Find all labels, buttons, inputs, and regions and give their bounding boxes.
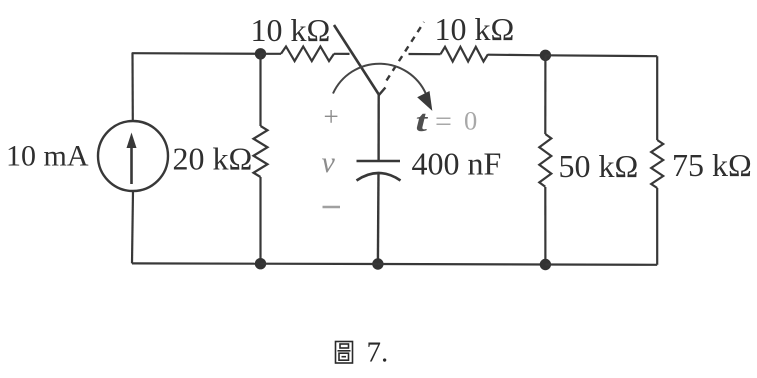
switch SW1 blade (closed toward left)	[334, 25, 379, 95]
wire top-left horizontal	[133, 52, 261, 55]
node B top (junction dot)	[540, 50, 551, 61]
capacitor C1 top plate	[357, 160, 401, 163]
minus sign	[323, 206, 341, 209]
current source arrowhead	[127, 133, 137, 149]
wire left rail upper	[131, 53, 134, 121]
switch open-position dashed line	[387, 22, 425, 81]
switch pivot notch	[379, 88, 386, 96]
node B bottom (junction dot)	[540, 259, 551, 270]
wire R3 to node B	[488, 54, 545, 57]
wire 50k branch upper	[544, 55, 546, 134]
wire top node B to right corner	[545, 54, 657, 57]
capacitor C1 bottom curved plate	[357, 173, 401, 181]
svg-text:75 kΩ: 75 kΩ	[672, 147, 752, 183]
wire 75k branch upper	[656, 56, 658, 140]
switch stem wire down to capacitor	[377, 95, 380, 161]
wire bottom middle-right segment	[378, 263, 546, 266]
svg-text:t=0: t=0	[416, 103, 478, 138]
svg-text:400 nF: 400 nF	[412, 146, 502, 182]
resistor R4 50 kOhm (vertical zigzag)	[539, 134, 551, 187]
resistor R1 20 kOhm (vertical zigzag)	[254, 126, 268, 177]
switch motion arc	[333, 64, 426, 94]
wire 20k branch lower	[259, 177, 261, 264]
wire bottom right segment	[545, 263, 657, 265]
resistor R3 10 kOhm (right horizontal zigzag)	[441, 47, 489, 62]
wire 50k branch lower	[544, 187, 546, 265]
svg-text:10 mA: 10 mA	[6, 140, 89, 173]
svg-text:10 kΩ: 10 kΩ	[251, 12, 331, 48]
node A top (junction dot)	[255, 48, 266, 59]
wire capacitor to bottom	[377, 173, 380, 265]
wire bottom left	[132, 262, 261, 265]
svg-text:+: +	[324, 102, 339, 132]
wire R2 to switch blade	[334, 53, 350, 55]
node A bottom (junction dot)	[255, 258, 266, 269]
svg-text:v: v	[322, 146, 336, 179]
wire bottom middle-left segment	[261, 263, 378, 265]
svg-text:50 kΩ: 50 kΩ	[559, 148, 639, 184]
wire left rail lower	[132, 191, 133, 264]
resistor R2 10 kOhm (left horizontal zigzag)	[281, 47, 334, 62]
wire dashed line to R3	[409, 53, 441, 55]
switch arc arrowhead	[417, 91, 432, 111]
node C bottom (junction dot)	[372, 258, 383, 269]
wire 75k branch lower	[656, 188, 658, 265]
svg-text:20 kΩ: 20 kΩ	[173, 141, 253, 177]
resistor R5 75 kOhm (vertical zigzag)	[651, 140, 663, 188]
svg-text:7.: 7.	[367, 337, 389, 369]
wire 20k branch upper	[259, 54, 261, 126]
svg-text:10 kΩ: 10 kΩ	[435, 11, 515, 47]
figure caption glyph (drawn CJK char)	[336, 342, 353, 364]
current source I1 10 mA	[98, 121, 168, 191]
wire top node A to R2	[261, 53, 282, 55]
